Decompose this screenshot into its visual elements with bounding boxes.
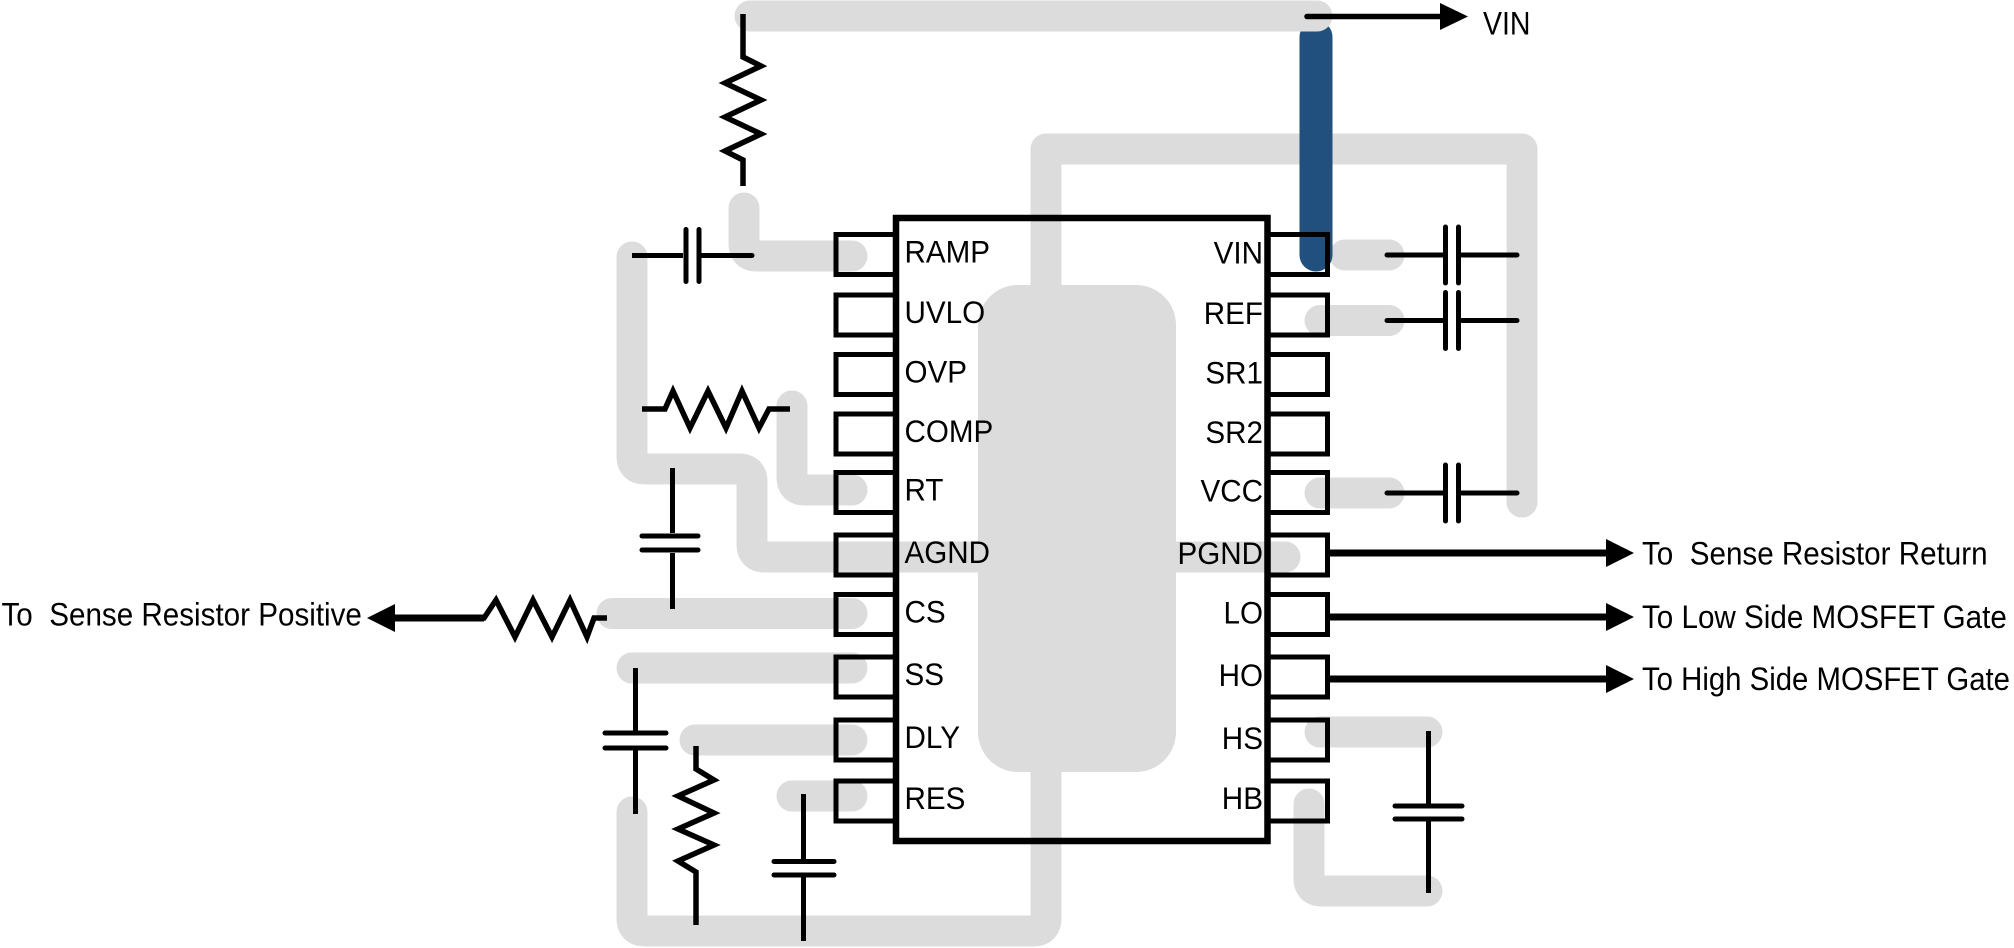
pin LO box	[1268, 595, 1328, 635]
node To Sense Resistor Return arrow	[1330, 536, 1988, 572]
svg-text:To Sense Resistor Positive: To Sense Resistor Positive	[2, 597, 362, 633]
svg-text:HS: HS	[1222, 720, 1263, 756]
svg-text:SS: SS	[905, 656, 945, 692]
wire gray SS stub	[632, 653, 852, 684]
wire gray SS-cap to bottom bar to center riser	[632, 760, 1046, 931]
pin COMP box	[836, 414, 896, 454]
pin PGND box	[1268, 535, 1328, 575]
svg-text:VIN: VIN	[1214, 235, 1263, 271]
svg-text:To Low Side MOSFET Gate: To Low Side MOSFET Gate	[1642, 599, 2007, 635]
resistor R1 vertical top	[725, 14, 761, 186]
pin UVLO box	[836, 295, 896, 335]
pin RES box	[836, 781, 896, 821]
svg-text:HO: HO	[1219, 657, 1263, 693]
wire gray DLY stub	[695, 725, 852, 756]
wire gray RAMP stub from R1	[744, 208, 852, 256]
wire gray right vertical	[1507, 150, 1538, 502]
wire gray CS stub	[612, 598, 852, 629]
svg-text:SR1: SR1	[1205, 355, 1263, 391]
wire gray RES stub	[792, 781, 852, 812]
wire gray top bar	[750, 1, 1317, 32]
pin SS box	[836, 657, 896, 697]
wire gray top horizontal to right	[1046, 134, 1522, 165]
pin HS box	[1268, 720, 1328, 760]
pin CS box	[836, 595, 896, 635]
node To High Side MOSFET Gate arrow	[1330, 661, 2010, 697]
svg-text:CS: CS	[905, 594, 946, 630]
pin OVP box	[836, 355, 896, 395]
capacitor C6 REF bypass	[1387, 293, 1517, 349]
wire gray VIN stub	[1345, 240, 1389, 271]
capacitor C8 HB bootstrap	[1395, 731, 1462, 893]
pin VIN box	[1268, 235, 1328, 275]
svg-text:To High Side MOSFET Gate: To High Side MOSFET Gate	[1642, 661, 2010, 697]
wire blue VIN trace	[1300, 37, 1333, 255]
svg-text:VCC: VCC	[1201, 473, 1264, 509]
pin HO box	[1268, 657, 1328, 697]
IC U1 body	[896, 218, 1268, 841]
pin RAMP box	[836, 235, 896, 275]
capacitor C2 RT	[642, 468, 698, 609]
node To Low Side MOSFET Gate arrow	[1330, 599, 2007, 635]
wire gray HB elbow	[1309, 804, 1427, 891]
wire gray HS stub	[1320, 717, 1427, 748]
pin DLY box	[836, 720, 896, 760]
pin AGND box	[836, 535, 896, 575]
capacitor C5 VIN bypass	[1387, 227, 1517, 283]
svg-text:DLY: DLY	[905, 719, 961, 755]
svg-text:VIN: VIN	[1483, 6, 1531, 42]
svg-text:UVLO: UVLO	[905, 294, 986, 330]
resistor R2 COMP horizontal	[642, 391, 790, 428]
node VIN arrow	[1307, 3, 1531, 42]
svg-text:REF: REF	[1204, 295, 1263, 331]
pin REF box	[1268, 295, 1328, 335]
node ground plane fill	[978, 285, 1176, 772]
svg-text:COMP: COMP	[905, 413, 994, 449]
capacitor C3 SS	[605, 668, 666, 814]
capacitor C1 RAMP	[632, 230, 752, 282]
wire gray VCC stub	[1320, 478, 1389, 509]
pin SR2 box	[1268, 414, 1328, 454]
pin VCC box	[1268, 473, 1328, 513]
resistor R4 DLY vertical	[678, 746, 714, 925]
svg-text:RAMP: RAMP	[905, 234, 991, 270]
capacitor C7 VCC bypass	[1387, 465, 1517, 521]
wire gray center riser	[1031, 150, 1062, 310]
svg-text:AGND: AGND	[905, 534, 991, 570]
svg-text:RT: RT	[905, 472, 944, 508]
capacitor C4 RES	[774, 794, 834, 941]
node To Sense Resistor Positive arrow	[2, 597, 485, 633]
pin HB box	[1268, 781, 1328, 821]
resistor R3 CS horizontal	[395, 600, 607, 637]
svg-text:SR2: SR2	[1205, 414, 1263, 450]
svg-text:To Sense Resistor Return: To Sense Resistor Return	[1642, 536, 1988, 572]
pin SR1 box	[1268, 355, 1328, 395]
svg-text:RES: RES	[905, 780, 966, 816]
wire gray left vertical to AGND band through IC to PGND	[632, 257, 1285, 557]
svg-text:HB: HB	[1222, 780, 1263, 816]
wire gray RT trace from COMP resistor	[792, 406, 852, 490]
svg-text:PGND: PGND	[1178, 535, 1264, 571]
wire gray REF stub	[1320, 305, 1389, 336]
pin RT box	[836, 473, 896, 513]
svg-text:OVP: OVP	[905, 354, 968, 390]
svg-text:LO: LO	[1224, 595, 1264, 631]
